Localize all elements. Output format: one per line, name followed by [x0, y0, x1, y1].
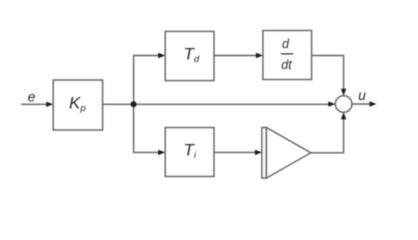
summing node circle	[335, 96, 352, 113]
block Td	[165, 31, 214, 80]
arrowhead into Td	[158, 53, 165, 58]
arrowhead into summing node top	[341, 89, 346, 96]
wire branch up to Td	[134, 56, 160, 105]
arrowhead into Ti	[158, 150, 165, 155]
arrowhead into d/dt	[256, 53, 263, 58]
arrowhead into integrator	[255, 150, 262, 155]
wire Kp output to summing node	[103, 103, 330, 105]
svg-text:e: e	[28, 89, 36, 105]
block Ti	[165, 128, 214, 177]
block Kp	[53, 80, 102, 130]
svg-text:d: d	[282, 37, 290, 51]
wire Ti to integrator	[214, 151, 257, 153]
junction dot	[131, 101, 137, 107]
wire Td to d/dt	[214, 55, 258, 57]
arrowhead into summing node bottom	[341, 112, 346, 119]
wire d/dt to summing node top	[312, 56, 344, 91]
integrator input bar	[262, 128, 267, 179]
wire integrator to summing node bottom	[311, 118, 344, 153]
arrowhead into summing node left	[328, 101, 335, 106]
arrowhead output u	[370, 101, 377, 106]
block d/dt	[263, 31, 312, 80]
integrator triangle	[266, 128, 310, 179]
svg-text:dt: dt	[281, 58, 292, 72]
arrowhead into Kp	[46, 102, 53, 107]
wire e input	[21, 103, 48, 105]
fraction bar of d/dt	[281, 53, 293, 55]
wire u output	[352, 103, 371, 105]
svg-text:u: u	[358, 87, 366, 103]
wire branch down to Ti	[134, 104, 160, 152]
